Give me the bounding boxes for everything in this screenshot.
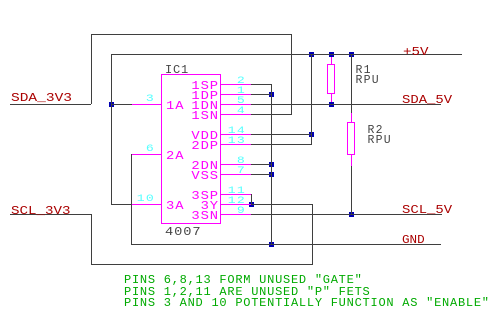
pin label 1SN xyxy=(182,110,219,122)
pin 4 line (1SN) xyxy=(221,114,252,115)
wire gate feed pin 10 xyxy=(111,204,132,205)
junction 3SP-3Y xyxy=(249,202,254,207)
junction 2DN xyxy=(269,162,274,167)
pin number 9 xyxy=(218,206,246,217)
pin 12 line (3Y) xyxy=(221,204,252,205)
junction VSS xyxy=(269,172,274,177)
net label GND xyxy=(402,234,425,246)
wire 2A to GND drop xyxy=(131,154,132,245)
pin number 13 xyxy=(218,136,246,147)
pin number 2 xyxy=(218,76,246,87)
wire 2DN stub xyxy=(251,164,271,165)
pin number 7 xyxy=(218,166,246,177)
pin number 14 xyxy=(218,126,246,137)
junction VDD-2DP xyxy=(309,132,314,137)
pin 6 line (2A) xyxy=(132,154,162,155)
junction R2 / SCL_5V xyxy=(349,212,354,217)
wire SCL_5V run xyxy=(251,214,442,215)
wire R2 top feed xyxy=(351,54,352,114)
wire to pin 4 1SN xyxy=(251,114,292,115)
pin 2 line (1SP) xyxy=(221,84,252,85)
pin 5 line (1DN) xyxy=(221,104,252,105)
junction +5V / R2 xyxy=(349,52,354,57)
wire VSS stub xyxy=(251,174,271,175)
value 4007 xyxy=(165,226,201,238)
net label +5V xyxy=(403,46,428,58)
pin label 1SP xyxy=(182,80,219,92)
pin number 11 xyxy=(218,186,246,197)
net label SCL_5V xyxy=(402,204,452,216)
pin 13 line (2DP) xyxy=(221,144,252,145)
wire 3SP drop xyxy=(251,194,252,205)
wire 3SP-3Y tie run xyxy=(251,204,312,205)
wire R2 bottom feed xyxy=(351,165,352,214)
wire SCL_3V3 label stub xyxy=(10,214,91,215)
pin number 3 xyxy=(128,94,156,105)
resistor R2 top lead xyxy=(351,113,352,124)
pin label VDD xyxy=(182,130,219,142)
pin number 1 xyxy=(218,86,246,97)
pin 11 line (3SP) xyxy=(221,194,252,195)
junction +5V / R1 xyxy=(329,52,334,57)
pin 9 line (3SN) xyxy=(221,214,252,215)
wire pins1-2 to GND drop xyxy=(271,84,272,245)
designator IC1 xyxy=(165,64,189,76)
pin 7 line (VSS) xyxy=(221,174,252,175)
pin number 4 xyxy=(218,106,246,117)
pin 3 line (1A) xyxy=(132,104,162,105)
wire VDD run xyxy=(251,134,311,135)
net label SDA_5V xyxy=(402,94,452,106)
pin label 2DP xyxy=(182,140,219,152)
wire SCL_3V3 drop xyxy=(91,214,92,265)
wire gate feed pin 3 xyxy=(111,104,132,105)
junction +5V / VDD feed xyxy=(309,52,314,57)
junction GND drop xyxy=(269,242,274,247)
pin label 3SN xyxy=(182,210,219,222)
designator R2 xyxy=(368,125,384,137)
wire SDA_5V run xyxy=(251,104,441,105)
pin label 1DN xyxy=(182,100,219,112)
net label SCL_3V3 xyxy=(11,205,70,217)
pin number 5 xyxy=(218,96,246,107)
junction 1SP-1DP xyxy=(269,92,274,97)
pin label 3SP xyxy=(182,190,219,202)
wire gate rail x111 xyxy=(111,54,112,205)
pin 8 line (2DN) xyxy=(221,164,252,165)
note line 1 xyxy=(124,274,363,286)
junction gate rail / pin3 xyxy=(109,102,114,107)
pin label 3A xyxy=(166,200,184,212)
value RPU of R2 xyxy=(368,135,392,147)
wire SCL loop right drop xyxy=(312,204,313,265)
IC U1 body (CD4007 symbol box) xyxy=(161,74,221,225)
wire SDA_3V3 drop to 1SN xyxy=(291,34,292,115)
value RPU of R1 xyxy=(356,75,380,87)
pin label VSS xyxy=(182,170,219,182)
pin 1 line (1DP) xyxy=(221,94,252,95)
resistor R1 top lead xyxy=(331,57,332,65)
net label SDA_3V3 xyxy=(11,92,72,104)
wire pin 2 stub xyxy=(251,84,272,85)
wire GND run xyxy=(131,244,441,245)
pin 10 line (3A) xyxy=(132,204,162,205)
wire VDD riser x311 xyxy=(311,54,312,145)
wire top SDA_3V3 run xyxy=(91,34,291,35)
note line 3 xyxy=(124,297,490,309)
wire SCL loop bottom xyxy=(91,264,313,265)
wire pin 1 stub xyxy=(251,94,271,95)
designator R1 xyxy=(356,65,372,77)
pin label 2DN xyxy=(182,160,219,172)
wire +5V rail xyxy=(111,54,462,55)
pin label 2A xyxy=(166,150,184,162)
resistor R1 body xyxy=(327,64,335,94)
wire 2DP run xyxy=(251,144,312,145)
junction R1 / SDA_5V xyxy=(329,102,334,107)
resistor R1 bottom lead xyxy=(331,94,332,102)
pin label 1A xyxy=(166,100,184,112)
pin number 10 xyxy=(128,194,156,205)
pin number 12 xyxy=(218,196,246,207)
pin 14 line (VDD) xyxy=(221,134,252,135)
wire SDA_3V3 label stub xyxy=(10,104,91,105)
resistor R2 body xyxy=(347,122,355,155)
pin label 3Y xyxy=(182,200,219,212)
note line 2 xyxy=(124,286,371,298)
resistor R2 bottom lead xyxy=(351,155,352,166)
pin label 1DP xyxy=(182,90,219,102)
pin number 6 xyxy=(128,144,156,155)
wire SDA_3V3 riser xyxy=(91,34,92,105)
pin number 8 xyxy=(218,156,246,167)
